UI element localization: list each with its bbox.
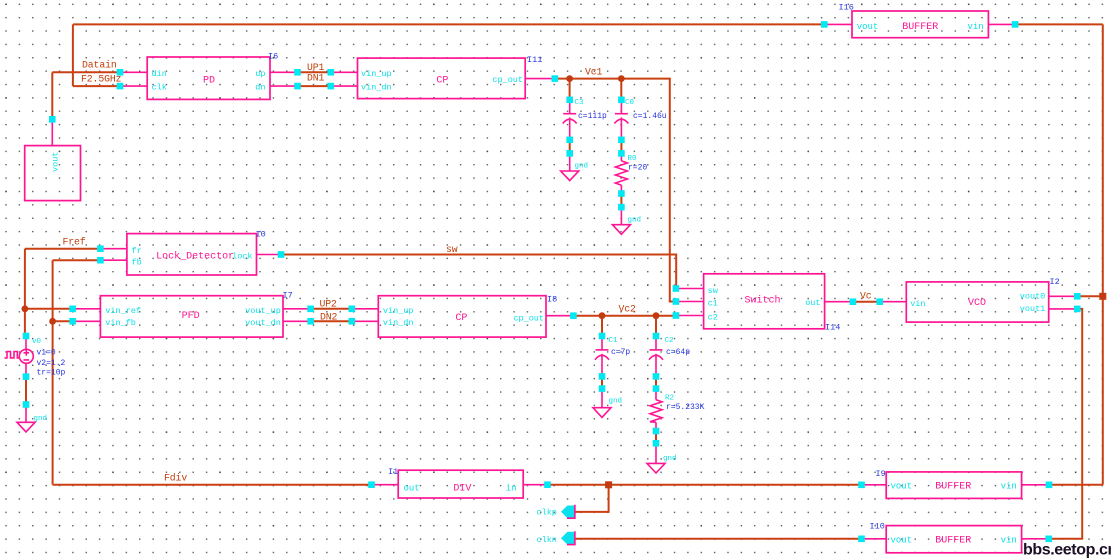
svg-text:bbs.eetop.cn: bbs.eetop.cn xyxy=(1023,542,1111,559)
svg-text:vin_fb: vin_fb xyxy=(105,318,136,328)
wire stub C1 gnd lead xyxy=(601,389,603,408)
wire stub I9 vin xyxy=(1022,484,1049,486)
svg-text:clk: clk xyxy=(152,83,167,93)
wire net Datain vertical left xyxy=(72,24,74,86)
node R0 top xyxy=(618,150,625,157)
node Switch c2 xyxy=(673,312,680,319)
node PFD vout_up xyxy=(307,306,314,313)
wire stub CP I8 vin_up xyxy=(352,308,379,310)
capacitor C3 xyxy=(563,99,607,124)
node v0 gnd xyxy=(23,401,30,408)
wire stub C3 top lead xyxy=(569,100,571,114)
wire vout0 to junction xyxy=(1077,295,1103,297)
wire stub PD din xyxy=(120,71,147,73)
node I10 vout xyxy=(858,536,865,543)
svg-text:r=5.233K: r=5.233K xyxy=(666,403,705,412)
svg-text:c=111p: c=111p xyxy=(578,112,607,121)
svg-text:I7: I7 xyxy=(283,291,293,301)
node CP I8 vin_dn xyxy=(349,318,356,325)
svg-text:DN2: DN2 xyxy=(320,311,338,322)
wire stub CP I11 vin_dn xyxy=(331,85,358,87)
svg-text:vin: vin xyxy=(910,299,925,309)
svg-text:I1: I1 xyxy=(388,467,398,477)
svg-text:I11: I11 xyxy=(527,55,542,65)
wire into I9 vin xyxy=(1049,484,1103,486)
svg-text:I6: I6 xyxy=(268,51,278,61)
svg-text:fb: fb xyxy=(132,258,142,268)
wire Datain down to vout pad xyxy=(51,72,53,119)
wire net Fref xyxy=(25,248,101,250)
node C3 bottom xyxy=(566,137,573,144)
node vout pad pin xyxy=(49,116,56,123)
node VCO vout0 xyxy=(1074,293,1081,300)
svg-text:gnd: gnd xyxy=(575,163,589,171)
block BUFFER I16 xyxy=(839,2,989,37)
svg-text:tr=10p: tr=10p xyxy=(37,369,66,378)
node CP I8 cp_out xyxy=(570,312,577,319)
svg-text:v2=1.2: v2=1.2 xyxy=(37,359,66,368)
wire stub PD up xyxy=(270,71,298,73)
svg-text:Fref: Fref xyxy=(63,237,86,248)
svg-text:vout1: vout1 xyxy=(1020,304,1046,314)
block PFD I7 xyxy=(100,291,292,338)
ground below C3 xyxy=(561,163,588,181)
svg-text:Switch: Switch xyxy=(744,294,780,306)
node C1 top xyxy=(599,333,606,340)
node Switch out xyxy=(850,298,857,305)
svg-text:F2.5GHz: F2.5GHz xyxy=(81,74,122,85)
wire DIV in to I9 vout xyxy=(548,484,862,486)
svg-text:Vc1: Vc1 xyxy=(585,67,603,78)
svg-text:vout_dn: vout_dn xyxy=(245,318,281,328)
wire stub PFD vout_dn xyxy=(283,320,311,322)
wire stub Switch out xyxy=(825,301,853,303)
svg-text:clkn: clkn xyxy=(537,535,557,545)
svg-text:CP: CP xyxy=(455,313,467,324)
svg-text:I10: I10 xyxy=(870,522,885,532)
node CP I11 vin_dn xyxy=(328,83,335,90)
node Switch sw xyxy=(673,285,680,292)
junction Vc1 C3 xyxy=(566,75,573,82)
svg-text:Fdiv: Fdiv xyxy=(164,473,187,484)
pin clkn xyxy=(537,531,576,545)
junction Fref vin_ref xyxy=(22,305,29,312)
wire stub Switch c1 xyxy=(676,301,704,303)
block Lock_Detector I0 xyxy=(127,230,266,276)
wire stub Lock_Detector fr xyxy=(100,248,127,250)
block VCO I2 xyxy=(906,277,1059,322)
svg-text:UP2: UP2 xyxy=(320,299,338,310)
svg-text:clkp: clkp xyxy=(537,508,557,518)
svg-text:gnd: gnd xyxy=(609,398,623,406)
svg-text:vout: vout xyxy=(891,536,913,546)
wire C0 bottom to R0 xyxy=(620,140,622,154)
ground below R0 xyxy=(612,217,641,235)
svg-text:DIV: DIV xyxy=(453,484,471,495)
wire stub C1 bottom lead xyxy=(601,354,603,377)
wire net Vc2 xyxy=(573,315,676,317)
node R2 gnd xyxy=(653,440,660,447)
wire stub PD clk xyxy=(120,85,147,87)
wire net Datain top horizontal to I16 vout xyxy=(73,23,821,25)
svg-text:r=20: r=20 xyxy=(628,164,647,173)
svg-text:c=64p: c=64p xyxy=(666,348,690,357)
svg-text:R2: R2 xyxy=(665,395,674,403)
node C2 bottom xyxy=(653,373,660,380)
wire stub VCO vout0 xyxy=(1049,295,1078,297)
block PD I6 xyxy=(147,51,278,99)
pin clkp xyxy=(537,505,576,519)
svg-text:up: up xyxy=(255,69,265,79)
node R2 bottom xyxy=(653,428,660,435)
node v0 plus xyxy=(23,333,30,340)
svg-text:c=1.46u: c=1.46u xyxy=(633,112,667,121)
voltage source v0 xyxy=(5,338,66,378)
wire stub C0 bottom lead xyxy=(620,118,622,140)
svg-text:BUFFER: BUFFER xyxy=(902,22,938,33)
svg-text:Datain: Datain xyxy=(82,60,117,71)
svg-text:Lock_Detector: Lock_Detector xyxy=(156,250,234,262)
svg-text:vout: vout xyxy=(891,482,913,492)
svg-text:R0: R0 xyxy=(628,155,638,163)
wire stub PFD vin_fb xyxy=(73,320,101,322)
svg-text:vout0: vout0 xyxy=(1020,291,1046,301)
svg-text:c2: c2 xyxy=(708,313,718,323)
node R0 bottom xyxy=(618,190,625,197)
node R2 top xyxy=(653,385,660,392)
wire net UP2 xyxy=(311,308,352,310)
svg-text:I0: I0 xyxy=(256,230,266,240)
svg-text:C0: C0 xyxy=(625,99,635,107)
svg-text:gnd: gnd xyxy=(34,415,48,423)
svg-text:gnd: gnd xyxy=(628,217,642,225)
wire Vc2 to C2 xyxy=(655,316,657,336)
node PD din xyxy=(117,69,124,76)
wire stub Lock_Detector lock xyxy=(257,254,282,256)
wire net UP1 xyxy=(298,71,331,73)
svg-text:C2: C2 xyxy=(665,337,674,345)
wire C2 bottom to R2 xyxy=(655,376,657,388)
wire stub DIV in xyxy=(523,484,547,486)
node CP I8 vin_up xyxy=(349,306,356,313)
node C1 gnd xyxy=(599,385,606,392)
wire stub CP I8 cp_out xyxy=(546,315,573,317)
svg-text:UP1: UP1 xyxy=(307,62,325,73)
node C0 top xyxy=(618,97,625,104)
wire stub R0 leads xyxy=(620,153,622,193)
wire vout1 to vertical xyxy=(1049,309,1083,539)
node I9 vout xyxy=(858,482,865,489)
svg-text:I8: I8 xyxy=(547,295,557,305)
node C2 top xyxy=(653,333,660,340)
wire stub PFD vin_ref xyxy=(73,308,101,310)
svg-text:Vc2: Vc2 xyxy=(619,304,637,315)
junction vout0 right xyxy=(1099,293,1106,300)
wire to PD din xyxy=(52,71,117,73)
svg-text:din: din xyxy=(152,69,167,79)
svg-text:cp_out: cp_out xyxy=(513,313,544,323)
svg-text:vin: vin xyxy=(1001,482,1017,492)
wire stub R0 gnd lead xyxy=(620,207,622,225)
node DIV in xyxy=(544,481,551,488)
svg-text:PFD: PFD xyxy=(182,311,200,322)
svg-text:vin_up: vin_up xyxy=(361,69,392,79)
wire stub C3 gnd lead xyxy=(569,153,571,171)
block CP I11 xyxy=(358,55,543,99)
node PFD vin_fb xyxy=(69,318,76,325)
wire stub v0 gnd lead xyxy=(25,405,27,423)
svg-text:in: in xyxy=(506,484,517,494)
block DIV I1 xyxy=(388,467,523,498)
junction Vc2 C1 xyxy=(599,312,606,319)
svg-text:sw: sw xyxy=(446,244,458,255)
svg-text:C3: C3 xyxy=(575,99,585,107)
svg-text:vin_dn: vin_dn xyxy=(361,83,392,93)
resistor R0 xyxy=(615,155,647,185)
svg-text:vin_up: vin_up xyxy=(383,306,414,316)
junction fb vin_fb xyxy=(49,318,56,325)
wire to Lock_Detector fb xyxy=(53,259,101,261)
wire stub Switch c2 xyxy=(676,315,704,317)
svg-text:vout: vout xyxy=(857,22,879,32)
block BUFFER I9 xyxy=(876,469,1022,498)
svg-text:I16: I16 xyxy=(839,2,854,12)
wire junction down to clkp xyxy=(576,485,609,512)
wire stub C1 top lead xyxy=(601,336,603,350)
node I16 vin xyxy=(1012,21,1019,28)
wire stub v0 top lead xyxy=(25,336,27,349)
node I9 vin xyxy=(1046,482,1053,489)
wire I16 vin to right edge xyxy=(1018,23,1103,25)
wire stub CP I11 vin_up xyxy=(331,71,358,73)
block BUFFER I10 xyxy=(870,522,1022,553)
junction Fdiv clkp xyxy=(605,481,612,488)
node Lock_Detector lock xyxy=(278,251,285,258)
wire to PFD vin_fb xyxy=(53,320,73,322)
wire stub R2 leads xyxy=(655,389,657,431)
svg-text:Vc: Vc xyxy=(860,291,872,302)
svg-text:dn: dn xyxy=(255,83,265,93)
svg-text:CP: CP xyxy=(436,75,448,86)
wire C1 bottom to gnd pin xyxy=(601,376,603,388)
node C3 gnd xyxy=(566,150,573,157)
svg-text:cp_out: cp_out xyxy=(492,75,523,85)
svg-text:I14: I14 xyxy=(825,323,840,333)
wire stub DIV out xyxy=(372,484,399,486)
svg-text:PD: PD xyxy=(203,75,215,86)
junction Vc1 C0 xyxy=(618,75,625,82)
wire stub C2 top lead xyxy=(655,336,657,350)
svg-text:lock: lock xyxy=(232,251,252,261)
svg-text:fr: fr xyxy=(132,246,142,256)
block vout pad xyxy=(25,146,81,201)
wire stub v0 bottom lead xyxy=(25,363,27,376)
svg-text:vout_up: vout_up xyxy=(245,306,281,316)
capacitor C1 xyxy=(595,337,630,360)
capacitor C2 xyxy=(649,337,690,360)
svg-text:sw: sw xyxy=(708,286,719,296)
node R0 gnd xyxy=(618,204,625,211)
node PD up xyxy=(294,69,301,76)
wire Fdiv vertical xyxy=(52,260,54,485)
node VCO vout1 xyxy=(1074,306,1081,313)
svg-text:DN1: DN1 xyxy=(307,73,325,84)
wire stub I10 vout xyxy=(862,538,887,540)
svg-text:out: out xyxy=(404,484,420,494)
wire stub Switch sw xyxy=(676,288,704,290)
svg-text:vin: vin xyxy=(967,22,983,32)
svg-text:I9: I9 xyxy=(876,469,886,479)
wire v0 minus to gnd pin xyxy=(25,377,27,405)
wire stub CP I8 vin_dn xyxy=(352,320,379,322)
wire stub I10 vin xyxy=(1022,538,1049,540)
wire net DN2 xyxy=(311,320,352,322)
svg-text:BUFFER: BUFFER xyxy=(935,536,971,547)
wire stub PD dn xyxy=(270,85,298,87)
node PFD vin_ref xyxy=(69,306,76,313)
wire net sw from lock xyxy=(281,255,676,289)
wire stub vout pad pin xyxy=(51,119,53,145)
svg-text:BUFFER: BUFFER xyxy=(935,482,971,493)
svg-text:vin: vin xyxy=(1001,536,1017,546)
svg-text:gnd: gnd xyxy=(663,455,677,463)
block CP I8 xyxy=(378,295,557,338)
node C0 bottom xyxy=(618,137,625,144)
wire stub C2 bottom lead xyxy=(655,354,657,377)
node C3 top xyxy=(566,97,573,104)
wire stub C3 bottom lead xyxy=(569,118,571,140)
wire net DN1 xyxy=(298,85,331,87)
node C1 bottom xyxy=(599,373,606,380)
svg-text:v1=0: v1=0 xyxy=(37,349,56,358)
ground below v0 xyxy=(17,415,47,432)
wire to PD clk xyxy=(73,85,117,87)
wire stub PFD vout_up xyxy=(283,308,311,310)
node PD clk xyxy=(117,83,124,90)
node CP I11 cp_out xyxy=(552,75,559,82)
wire R0 bottom to gnd pin xyxy=(620,194,622,208)
wire stub C0 top lead xyxy=(620,100,622,114)
ground below C1 xyxy=(593,398,622,418)
wire right vertical vout0 net xyxy=(1102,24,1104,484)
wire stub Lock_Detector fb xyxy=(100,259,127,261)
wire clkn to I10 vout xyxy=(576,538,862,540)
node Lock_Detector fr xyxy=(97,245,104,252)
svg-text:vout: vout xyxy=(51,152,61,172)
node I10 vin xyxy=(1045,536,1052,543)
wire stub I16 vin xyxy=(988,23,1015,25)
node v0 minus xyxy=(23,373,30,380)
wire Vc2 to C1 xyxy=(601,316,603,336)
svg-text:out: out xyxy=(805,298,820,308)
wire net Vc1 xyxy=(555,79,676,302)
wire R2 bottom to gnd pin xyxy=(655,431,657,443)
node DIV out xyxy=(368,481,375,488)
svg-text:v0: v0 xyxy=(32,338,42,346)
ground below R2 xyxy=(647,455,677,473)
wire C3 bottom to gnd pin xyxy=(569,140,571,154)
svg-text:C1: C1 xyxy=(609,337,619,345)
wire Fref vertical to v0 xyxy=(24,249,26,333)
svg-text:vin_ref: vin_ref xyxy=(105,306,141,316)
resistor R2 xyxy=(650,395,705,423)
wire stub R2 gnd lead xyxy=(655,443,657,463)
wire Vc1 to C0 xyxy=(620,79,622,100)
block Switch I14 xyxy=(704,274,841,333)
wire stub CP I11 cp_out xyxy=(525,78,555,80)
wire stub VCO vin xyxy=(880,301,907,303)
svg-text:vin_dn: vin_dn xyxy=(383,318,414,328)
node VCO vin xyxy=(876,298,883,305)
svg-text:VCO: VCO xyxy=(968,298,986,309)
node Lock_Detector fb xyxy=(97,257,104,264)
node CP I11 vin_up xyxy=(328,69,335,76)
svg-text:c=7p: c=7p xyxy=(611,348,630,357)
node Switch c1 xyxy=(673,298,680,305)
wire stub VCO vout1 xyxy=(1049,308,1078,310)
wire net Fdiv horizontal xyxy=(53,484,372,486)
wire to PFD vin_ref xyxy=(25,308,73,310)
svg-text:c1: c1 xyxy=(708,299,718,309)
wire net Vc Switch out to VCO vin xyxy=(853,301,880,303)
node PD dn xyxy=(294,83,301,90)
node PFD vout_dn xyxy=(307,318,314,325)
node I16 vout xyxy=(821,21,828,28)
junction Vc2 C2 xyxy=(653,312,660,319)
wire stub I9 vout xyxy=(862,484,887,486)
wire Vc1 to C3 xyxy=(569,79,571,100)
wire stub I16 vout xyxy=(824,23,852,25)
capacitor C0 xyxy=(614,99,666,124)
svg-text:I2: I2 xyxy=(1050,277,1060,287)
